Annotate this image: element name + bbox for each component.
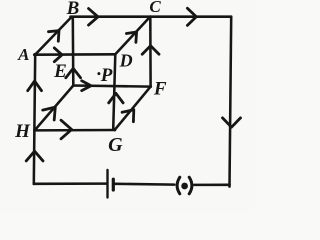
wire bottom right segment	[194, 184, 229, 187]
arrow G to F	[122, 110, 134, 122]
svg-text:D: D	[119, 51, 133, 71]
meter dot	[181, 183, 188, 190]
wire edge D-C	[115, 17, 150, 55]
arrow A to B	[49, 31, 60, 42]
wire edge H-G	[34, 129, 115, 132]
battery long plate	[106, 170, 108, 198]
arrow B to C	[89, 9, 99, 26]
arrow E to F	[82, 81, 91, 91]
arrow D to C	[126, 32, 136, 42]
point P dot	[97, 72, 100, 75]
svg-text:F: F	[153, 79, 167, 100]
svg-text:P: P	[100, 65, 113, 86]
battery short plate	[112, 179, 115, 190]
svg-text:E: E	[53, 61, 67, 82]
wire edge E-H	[35, 86, 74, 131]
wire edge A-B	[35, 17, 71, 55]
arrow A to D	[54, 48, 62, 62]
svg-text:B: B	[66, 0, 80, 19]
svg-text:A: A	[17, 45, 29, 64]
wire bottom middle segment	[115, 183, 175, 186]
arrow H to A	[28, 81, 42, 91]
wire edge C-F	[149, 17, 152, 87]
wire edge E-F	[73, 86, 151, 87]
meter right paren	[189, 177, 192, 194]
wire bottom left segment	[34, 182, 107, 185]
wire edge A-D	[34, 53, 115, 56]
arrow right wire down	[223, 118, 241, 127]
svg-text:C: C	[149, 0, 161, 16]
wire top edge B-C continuing to top-right corner	[71, 15, 232, 18]
arrow bottom wire up to H	[26, 151, 43, 161]
wire edge B-E	[72, 17, 75, 86]
meter left paren	[177, 177, 180, 194]
wire edge F-G	[115, 87, 151, 130]
arrow E to B	[66, 68, 81, 78]
arrow H to E	[43, 107, 56, 120]
wire right vertical	[230, 17, 232, 187]
arrow G to D	[109, 93, 123, 103]
arrow H to G	[61, 120, 72, 139]
svg-text:H: H	[14, 121, 31, 142]
wire left vertical A-H down to bottom-left corner	[34, 54, 35, 184]
arrow C to right corner	[187, 8, 196, 25]
wire edge D-G	[113, 54, 115, 130]
arrow F to C	[142, 46, 159, 54]
svg-text:G: G	[108, 134, 123, 156]
